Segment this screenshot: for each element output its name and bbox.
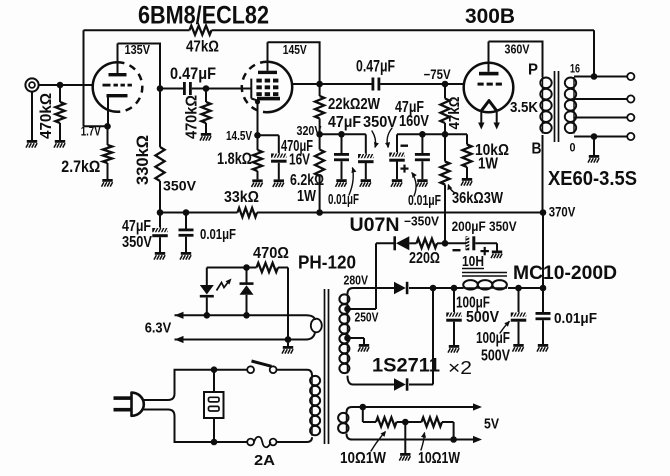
svg-text:PH-120: PH-120 (298, 252, 356, 272)
svg-text:1W: 1W (478, 156, 499, 173)
svg-text:300B: 300B (465, 5, 515, 28)
svg-text:6BM8/ECL82: 6BM8/ECL82 (138, 1, 269, 29)
svg-text:2A: 2A (254, 452, 275, 469)
svg-text:1W: 1W (297, 188, 317, 205)
svg-text:10Ω1W: 10Ω1W (418, 450, 461, 467)
svg-text:360V: 360V (505, 42, 530, 57)
svg-text:−75V: −75V (424, 67, 451, 82)
svg-text:200μF 350V: 200μF 350V (452, 219, 517, 234)
svg-text:135V: 135V (125, 42, 151, 57)
svg-text:16V: 16V (289, 152, 310, 169)
svg-text:XE60-3.5S: XE60-3.5S (548, 168, 637, 190)
svg-text:47kΩ: 47kΩ (447, 96, 463, 129)
svg-text:47kΩ: 47kΩ (186, 39, 219, 56)
svg-text:500V: 500V (481, 348, 510, 365)
svg-text:2.7kΩ: 2.7kΩ (61, 158, 100, 176)
svg-text:100μF: 100μF (476, 330, 510, 347)
svg-text:16: 16 (570, 62, 580, 76)
svg-text:10Ω1W: 10Ω1W (340, 450, 387, 467)
svg-text:370V: 370V (549, 205, 576, 220)
svg-text:B: B (532, 141, 542, 158)
svg-text:×2: ×2 (448, 358, 472, 378)
svg-text:U07N: U07N (350, 214, 400, 236)
svg-text:P: P (528, 62, 538, 79)
svg-text:350V: 350V (163, 179, 196, 194)
svg-text:MC10-200D: MC10-200D (513, 263, 617, 284)
svg-text:350V: 350V (122, 234, 152, 251)
svg-text:0.01μF: 0.01μF (554, 310, 597, 327)
svg-text:320V: 320V (297, 123, 322, 138)
svg-text:330kΩ: 330kΩ (133, 135, 152, 185)
svg-text:145V: 145V (283, 42, 307, 57)
svg-text:0.47μF: 0.47μF (170, 64, 216, 83)
svg-text:160V: 160V (399, 113, 429, 130)
svg-text:0: 0 (570, 141, 576, 155)
svg-text:3.5K: 3.5K (510, 99, 538, 116)
svg-text:−350V: −350V (404, 214, 440, 228)
svg-text:10H: 10H (462, 253, 484, 270)
svg-text:500V: 500V (466, 309, 499, 326)
svg-text:22kΩ2W: 22kΩ2W (328, 96, 381, 113)
svg-text:14.5V: 14.5V (226, 128, 252, 143)
svg-text:1S2711: 1S2711 (372, 356, 440, 377)
svg-text:250V: 250V (355, 310, 379, 325)
svg-text:36kΩ3W: 36kΩ3W (452, 190, 504, 207)
svg-text:220Ω: 220Ω (409, 250, 440, 267)
svg-text:280V: 280V (344, 273, 369, 288)
svg-text:47μF: 47μF (122, 218, 151, 235)
svg-text:5V: 5V (484, 417, 499, 433)
svg-text:6.2kΩ: 6.2kΩ (290, 172, 324, 189)
svg-text:1.7V: 1.7V (81, 125, 102, 139)
svg-text:470Ω: 470Ω (253, 245, 289, 262)
svg-text:470kΩ: 470kΩ (38, 93, 55, 139)
svg-text:1.8kΩ: 1.8kΩ (217, 149, 252, 168)
svg-text:0.01μF: 0.01μF (200, 226, 236, 243)
svg-text:0.01μF: 0.01μF (328, 191, 359, 208)
svg-text:0.01μF: 0.01μF (408, 192, 441, 209)
svg-text:6.3V: 6.3V (145, 321, 172, 337)
svg-text:0.47μF: 0.47μF (356, 57, 395, 76)
svg-text:470kΩ: 470kΩ (184, 95, 201, 139)
svg-text:33kΩ: 33kΩ (224, 189, 259, 206)
svg-text:47μF: 47μF (328, 114, 361, 131)
